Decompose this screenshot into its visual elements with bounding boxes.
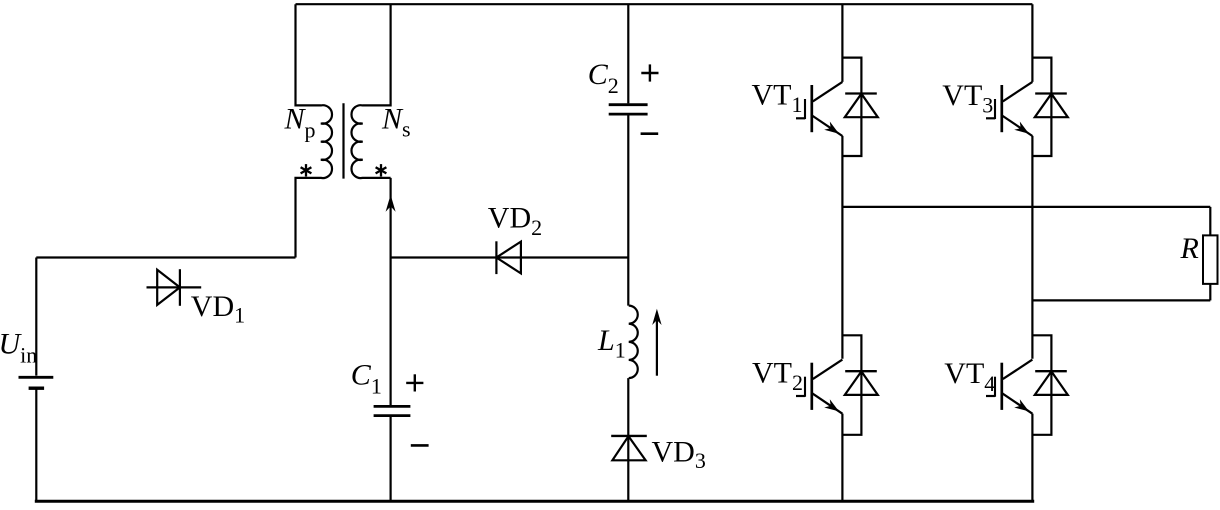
svg-text:R: R xyxy=(1180,232,1199,265)
